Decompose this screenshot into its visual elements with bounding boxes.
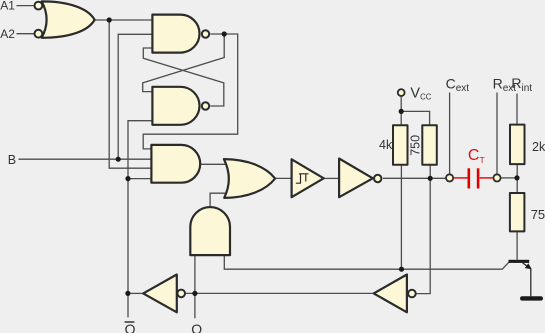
svg-text:A2: A2: [0, 27, 15, 41]
wire Schmitt output to inverter U2 input: [324, 177, 339, 179]
wire A net vertical to AND input 3: [109, 20, 151, 168]
wire Rext terminal to 2k/75 junction: [501, 177, 517, 179]
wire Q-bar output pin: [127, 293, 129, 317]
bubble N1: [202, 30, 209, 37]
resistor 750: [422, 125, 437, 165]
transistor Q1 emitter: [523, 263, 530, 268]
wire A-gate output to NAND1 input 1: [95, 19, 153, 21]
wire NAND1 input 2 from B net: [118, 34, 152, 159]
svg-text:B: B: [8, 153, 16, 167]
junction dot A net: [107, 17, 112, 22]
svg-text:750: 750: [409, 135, 423, 156]
junction dot Q-bar node: [125, 291, 130, 296]
wire Rint label lead to 2k top: [516, 94, 518, 125]
junction dot Q node: [192, 291, 197, 296]
nand N1 latch top: [152, 15, 199, 53]
junction dot base line / 4k: [399, 267, 404, 272]
svg-text:4k: 4k: [379, 138, 393, 152]
nand N2 latch bottom: [152, 87, 199, 125]
bubble U4: [408, 290, 416, 298]
wire dome AND right input to transistor base: [224, 255, 509, 269]
schmitt hysteresis glyph: [296, 174, 309, 183]
wire inverter U2 output to Cext node: [383, 177, 446, 179]
wire inverter U3 output to Q-bar node: [128, 292, 143, 294]
or O1: [224, 159, 275, 198]
wire OR output to Schmitt input: [275, 177, 292, 179]
wire 2k bottom to 75 top through junction: [516, 164, 518, 193]
wire AND input 4 from Q-bar net: [128, 178, 151, 180]
wire Vcc branch to 750 top: [401, 111, 429, 125]
schmitt trigger S1: [292, 159, 324, 197]
junction dot 2k/75: [514, 175, 519, 180]
wire Q output pin: [194, 293, 196, 318]
junction dot NAND1 output: [222, 31, 227, 36]
svg-text:Q: Q: [191, 321, 202, 333]
resistor 2k: [510, 125, 525, 165]
junction dot B net: [116, 157, 121, 162]
wire NAND1 output cross to NAND2 input 1: [143, 34, 225, 92]
inverter U2: [339, 159, 373, 198]
wire A1 input lead: [17, 5, 35, 7]
inverter U3 (Q-bar driver): [143, 275, 177, 313]
resistor 75: [510, 193, 525, 231]
wire dome AND left input to Q node: [194, 255, 196, 293]
junction dot Q-bar/AND: [125, 176, 130, 181]
inverter U4 (Q driver): [374, 275, 407, 313]
wire dome AND output to OR input 2: [210, 193, 227, 207]
svg-text:A1: A1: [0, 0, 15, 13]
input bubble A1: [35, 2, 43, 10]
wire Rext label lead: [496, 93, 498, 174]
wire AND output to OR input 1: [200, 163, 229, 165]
wire 750 bottom through Cext line to inverter U4 input: [417, 165, 431, 294]
bubble N2: [202, 102, 209, 109]
capacitor CT red: [453, 168, 493, 188]
wire A2 input lead: [17, 33, 35, 35]
wire B input line to AND input 2: [19, 158, 152, 160]
transistor Q1 base bar: [509, 260, 530, 263]
wire Vcc terminal down to 4k top: [400, 96, 402, 125]
svg-text:2k: 2k: [532, 140, 545, 154]
and gate G1 (4-input): [151, 145, 200, 183]
junction dot Vcc branch: [399, 109, 404, 114]
wire Q node line to inverter U4 output: [186, 292, 374, 294]
terminal Rext: [493, 174, 500, 181]
resistor 4k: [393, 125, 408, 165]
bubble U3: [177, 290, 185, 298]
terminal Cext: [446, 174, 453, 181]
wire 4k bottom to transistor base line: [400, 165, 402, 270]
junction dot Cext line / 750: [428, 176, 433, 181]
wire 75 bottom to transistor collector: [516, 231, 518, 259]
svg-text:75: 75: [531, 207, 545, 222]
or gate U1 with inverted inputs (A1,A2): [42, 1, 95, 37]
wire NAND1 input 3 feedback from NAND2 output: [143, 48, 224, 106]
and gate G2 (vertical dome): [190, 207, 230, 255]
input bubble A2: [35, 30, 43, 38]
wire Q-bar net vertical: [128, 121, 152, 294]
wire Cext label lead: [449, 93, 451, 174]
ground: [520, 296, 543, 300]
terminal Vcc: [398, 89, 405, 96]
wire NAND1 output to AND input 1: [143, 34, 238, 149]
bubble U2: [374, 175, 381, 182]
